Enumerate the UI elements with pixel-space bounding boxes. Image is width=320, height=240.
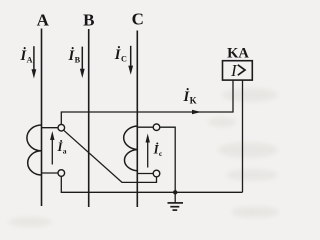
svg-text:A: A (37, 11, 50, 30)
CT TA-c primary winding (two bumps on phase C) (124, 126, 138, 171)
current arrow IA (32, 46, 37, 78)
current arrow IK on wire (192, 110, 201, 114)
CT TA-c top terminal link wire (137, 126, 153, 128)
relay KA box (223, 61, 253, 80)
CT TA-a bottom terminal link wire (42, 172, 59, 174)
current arrow IC (128, 46, 133, 75)
CT TA-a top terminal (58, 124, 65, 131)
CT TA-c top terminal (153, 124, 160, 131)
CT TA-a bottom terminal (58, 170, 65, 177)
wire: CT-A top terminal up and right to relay (IK wire) (61, 80, 233, 124)
junction dot (173, 190, 177, 194)
CT TA-c bottom terminal (153, 170, 160, 177)
wire: relay right lead down to return wire (242, 80, 244, 192)
wire: CT-C top terminal right then down to ground (160, 127, 175, 202)
current arrow IB (80, 47, 85, 78)
svg-text:C: C (132, 10, 144, 29)
phase line A (41, 29, 43, 207)
wire: diagonal from CT-A top terminal to CT-C bottom terminal (64, 130, 157, 182)
svg-text:B: B (83, 11, 94, 30)
ground symbol (168, 203, 184, 210)
svg-text:KA: KA (227, 46, 249, 62)
CT TA-c bottom terminal link wire (137, 173, 153, 175)
current arrow Ia (50, 131, 54, 165)
phase line C (136, 31, 138, 208)
phase line B (88, 29, 90, 207)
CT TA-a primary winding (two bumps on phase A) (27, 125, 42, 175)
current arrow Ic (146, 134, 150, 168)
wire: CT-A bottom terminal down and right (return wire) (61, 176, 242, 192)
CT TA-a top terminal link wire (42, 127, 59, 129)
